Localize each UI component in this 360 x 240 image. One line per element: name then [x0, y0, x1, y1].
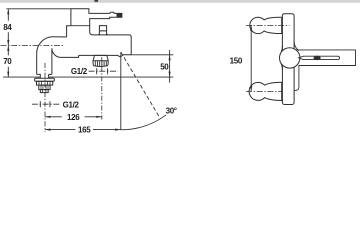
body bottom left segment [66, 55, 79, 57]
shank neck [37, 74, 52, 78]
cap left edge + ledge [67, 26, 71, 37]
50 top arrow [169, 55, 171, 61]
column [282, 14, 294, 105]
column to circle transition curves [294, 42, 299, 51]
150 bottom arrow [250, 86, 252, 92]
leg axis centerline [44, 63, 46, 132]
wire: 84 top extension line [6, 8, 71, 10]
diverter knob on body top [99, 26, 108, 35]
dome hatching [95, 61, 106, 66]
svg-text:165: 165 [78, 126, 91, 135]
dim 50 extension top [131, 54, 174, 56]
dim 165 line [45, 129, 121, 131]
spout pipe bottom + inner bend radius + leg right edge [52, 48, 66, 74]
30 deg dashed line [121, 52, 160, 117]
dim 150 line [250, 25, 252, 91]
70 bottom arrow [7, 72, 9, 78]
shank tail [40, 90, 48, 93]
arrowheads [7, 9, 252, 131]
svg-text:84: 84 [3, 23, 12, 32]
centerline top union [246, 24, 290, 26]
centerline bottom union [246, 90, 282, 92]
165 right arrow [115, 129, 121, 131]
dim 84 line [7, 9, 9, 45]
shank nut [37, 81, 53, 85]
svg-text:150: 150 [230, 57, 243, 66]
shank thread [39, 85, 50, 90]
dim 50 line [169, 50, 171, 83]
126 right arrow [96, 116, 102, 118]
svg-text:30°: 30° [166, 106, 177, 115]
centerline spout axis [1, 44, 65, 46]
svg-text:50: 50 [160, 62, 169, 71]
arm rectangle [294, 50, 356, 91]
svg-text:G1/2: G1/2 [63, 100, 80, 109]
dome axis centerline [101, 57, 103, 120]
svg-text:70: 70 [3, 57, 12, 66]
G1/2 leader (dome) [89, 70, 118, 72]
dim 126 line [45, 116, 102, 118]
shank flange [35, 78, 55, 81]
svg-text:G1/2: G1/2 [71, 67, 88, 76]
150 top arrow [250, 25, 252, 31]
top gray strip [0, 0, 360, 3]
svg-text:126: 126 [67, 113, 80, 122]
165 left arrow [45, 129, 51, 131]
swing arc [121, 115, 166, 130]
deck line [3, 76, 173, 78]
G1/2 leader (shank) [32, 103, 60, 105]
dim 70 line [7, 46, 9, 77]
84 bottom arrow [7, 40, 9, 46]
165 extension vertical [120, 53, 122, 130]
126 left arrow [45, 116, 51, 118]
circle boss [280, 48, 300, 68]
top pill [250, 17, 282, 33]
leg left edge + outer bend + pipe top edge [37, 37, 67, 75]
faucet outline: handle + body [71, 9, 131, 57]
lever dark tip cap [117, 13, 122, 17]
dark blob in strip [94, 0, 98, 2]
70 top arrow [7, 45, 9, 51]
handle base seam [71, 25, 90, 27]
dome outlet below body [93, 55, 109, 66]
lever shaft [299, 56, 340, 59]
bottom pill [249, 82, 282, 100]
50 bottom arrow [169, 72, 171, 78]
84 top arrow [7, 9, 9, 15]
lever shaft oval [314, 56, 321, 60]
